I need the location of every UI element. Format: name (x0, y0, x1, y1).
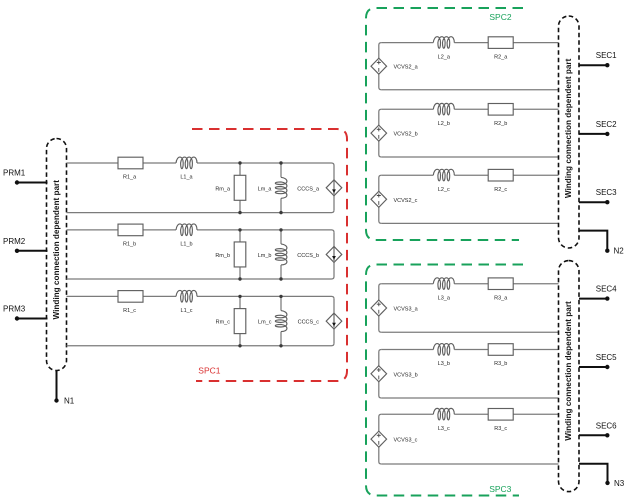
svg-text:SPC2: SPC2 (489, 12, 511, 22)
svg-text:Lm_b: Lm_b (258, 253, 272, 259)
inductor L2_a (433, 37, 454, 61)
svg-text:R2_a: R2_a (494, 54, 508, 60)
svg-text:VCVS2_a: VCVS2_a (394, 65, 419, 71)
junction dots phase c (238, 295, 282, 348)
svg-text:SEC3: SEC3 (596, 188, 617, 197)
secondary winding-connection capsule (upper) (559, 16, 580, 248)
resistor R2_a (488, 37, 513, 61)
svg-text:SEC5: SEC5 (596, 353, 617, 362)
resistor Rm_c (216, 309, 246, 334)
svg-text:L3_c: L3_c (438, 426, 450, 432)
svg-text:R1_c: R1_c (123, 308, 136, 314)
svg-text:PRM3: PRM3 (3, 305, 26, 314)
svg-text:Winding connection dependent p: Winding connection dependent part (564, 301, 573, 441)
wire: loop 3_a left vertical (379, 284, 382, 333)
svg-text:Rm_c: Rm_c (216, 320, 231, 326)
node N2 (579, 231, 624, 256)
resistor R1_a (118, 157, 143, 181)
svg-text:R1_b: R1_b (123, 242, 136, 248)
svg-text:SEC4: SEC4 (596, 285, 617, 294)
label: Winding connection dependent part (primary) (52, 180, 61, 320)
svg-text:SPC3: SPC3 (489, 484, 511, 494)
terminal SEC2 (579, 120, 617, 136)
wire: Lm_c branch (280, 296, 282, 345)
wire: loop 2_a bottom rail (381, 89, 558, 91)
svg-text:L2_b: L2_b (438, 121, 450, 127)
terminal PRM1 (3, 169, 48, 185)
wire: phase c bottom rail (67, 343, 335, 346)
inductor L1_a (176, 157, 197, 181)
svg-text:L3_b: L3_b (438, 361, 450, 367)
svg-text:SPC1: SPC1 (198, 366, 220, 376)
svg-text:VCVS3_b: VCVS3_b (394, 372, 418, 378)
current source CCCS_c (298, 313, 342, 329)
wire: loop33_b loop top rail (381, 349, 558, 351)
wire: loop 2_b left vertical (379, 109, 382, 157)
svg-text:PRM1: PRM1 (3, 169, 26, 178)
label SPC1 (198, 366, 220, 376)
wire: Rm_c branch (239, 296, 241, 345)
voltage source VCVS2_b (371, 125, 418, 141)
wire: loop 2_b bottom rail (381, 156, 558, 158)
svg-text:VCVS2_b: VCVS2_b (394, 132, 418, 138)
wire: phase a bottom rail (67, 210, 335, 213)
wire: loop 3_c left vertical (379, 414, 382, 464)
svg-text:VCVS2_c: VCVS2_c (394, 198, 418, 204)
SPC2 boundary (green dashed box) (366, 8, 523, 240)
svg-text:N1: N1 (64, 397, 75, 406)
junction dots phase b (238, 228, 282, 280)
svg-text:Winding connection dependent p: Winding connection dependent part (52, 180, 61, 320)
inductor L3_c (433, 408, 454, 432)
wire: Lm_a branch (280, 163, 282, 213)
terminal PRM2 (3, 237, 48, 253)
terminal PRM3 (3, 305, 48, 321)
svg-text:Lm_a: Lm_a (258, 186, 273, 192)
voltage source VCVS3_a (371, 300, 419, 316)
node N3 (579, 464, 625, 488)
wire: loop22_b loop top rail (381, 108, 558, 110)
wire: CCCS_a vertical (333, 166, 335, 211)
inductor Lm_c (258, 311, 287, 332)
resistor R3_c (488, 409, 513, 433)
svg-text:L1_b: L1_b (180, 242, 192, 248)
inductor L2_c (433, 169, 454, 193)
wire: Rm_a branch (239, 163, 241, 213)
voltage source VCVS3_c (371, 431, 418, 447)
wire: CCCS_b vertical (333, 232, 335, 276)
inductor L2_b (433, 103, 454, 127)
inductor L1_b (176, 224, 197, 248)
wire: loop 3_a bottom rail (381, 331, 558, 333)
wire: loop 3_b left vertical (379, 350, 382, 399)
svg-text:N2: N2 (614, 247, 625, 256)
svg-text:N3: N3 (614, 479, 625, 488)
inductor Lm_a (258, 177, 287, 198)
resistor R1_c (118, 291, 143, 315)
svg-text:Winding connection dependent p: Winding connection dependent part (564, 58, 573, 198)
label SPC3 (489, 484, 511, 494)
resistor R1_b (118, 224, 143, 248)
svg-text:R3_a: R3_a (494, 295, 508, 301)
svg-text:R3_b: R3_b (494, 361, 507, 367)
current source CCCS_a (297, 180, 342, 196)
resistor Rm_a (215, 175, 245, 200)
wire: loop33_c loop top rail (381, 413, 558, 415)
resistor R2_b (488, 104, 513, 128)
label SPC2 (489, 12, 511, 22)
inductor Lm_b (258, 244, 287, 265)
svg-text:SEC2: SEC2 (596, 120, 617, 129)
svg-text:Rm_b: Rm_b (215, 253, 230, 259)
resistor R3_b (488, 344, 513, 368)
voltage source VCVS2_c (371, 191, 418, 207)
svg-text:R1_a: R1_a (123, 175, 137, 181)
inductor L3_b (433, 344, 454, 368)
voltage source VCVS3_b (371, 366, 418, 382)
resistor R2_c (488, 169, 513, 193)
terminal SEC4 (579, 285, 617, 301)
svg-text:PRM2: PRM2 (3, 237, 26, 246)
SPC3 boundary (green dashed box) (366, 265, 523, 496)
wire: loop22_c loop top rail (381, 174, 558, 176)
wire: loop33_a loop top rail (381, 283, 558, 285)
svg-text:VCVS3_c: VCVS3_c (394, 438, 418, 444)
label: Winding connection dependent part (lower secondary) (564, 301, 573, 441)
svg-text:R2_b: R2_b (494, 121, 507, 127)
wire: loop 3_b bottom rail (381, 397, 558, 399)
svg-text:L2_a: L2_a (438, 54, 451, 60)
svg-text:CCCS_b: CCCS_b (297, 253, 319, 259)
wire: phase b top rail (67, 230, 335, 233)
terminal SEC5 (579, 353, 617, 369)
inductor L1_c (176, 290, 197, 314)
svg-text:L1_c: L1_c (181, 308, 193, 314)
wire: phase c top rail (67, 296, 335, 299)
svg-text:Lm_c: Lm_c (258, 320, 272, 326)
svg-text:CCCS_a: CCCS_a (297, 186, 320, 192)
svg-text:SEC6: SEC6 (596, 421, 617, 430)
wire: loop22_a loop top rail (381, 42, 558, 44)
primary winding-connection dependent part (dashed capsule) (47, 139, 67, 371)
inductor L3_a (433, 278, 454, 302)
svg-text:Rm_a: Rm_a (215, 186, 231, 192)
svg-text:L1_a: L1_a (180, 175, 193, 181)
wire: Rm_b branch (239, 230, 241, 279)
svg-text:R2_c: R2_c (494, 187, 507, 193)
terminal SEC1 (579, 51, 617, 67)
svg-text:CCCS_c: CCCS_c (298, 320, 320, 326)
secondary winding-connection capsule (lower) (559, 261, 580, 492)
wire: loop 3_c bottom rail (381, 463, 558, 465)
svg-text:L3_a: L3_a (438, 295, 451, 301)
wire: loop 2_c left vertical (379, 175, 382, 223)
wire: phase a top rail (67, 163, 335, 166)
wire: CCCS_c vertical (333, 299, 335, 343)
label: Winding connection dependent part (upper secondary) (564, 58, 573, 198)
wire: loop 2_a left vertical (379, 43, 382, 90)
current source CCCS_b (297, 246, 342, 262)
voltage source VCVS2_a (371, 58, 419, 74)
resistor R3_a (488, 278, 513, 302)
svg-text:VCVS3_a: VCVS3_a (394, 307, 419, 313)
node N1 (54, 371, 74, 406)
terminal SEC3 (579, 188, 617, 204)
svg-text:SEC1: SEC1 (596, 51, 617, 60)
resistor Rm_b (215, 242, 245, 267)
SPC1 boundary (red dashed box) (192, 129, 347, 381)
svg-text:R3_c: R3_c (494, 426, 507, 432)
wire: phase b bottom rail (67, 277, 335, 280)
terminal SEC6 (579, 421, 617, 437)
wire: loop 2_c bottom rail (381, 222, 558, 224)
svg-text:L2_c: L2_c (438, 187, 450, 193)
wire: Lm_b branch (280, 230, 282, 279)
junction dots phase a (238, 161, 282, 214)
